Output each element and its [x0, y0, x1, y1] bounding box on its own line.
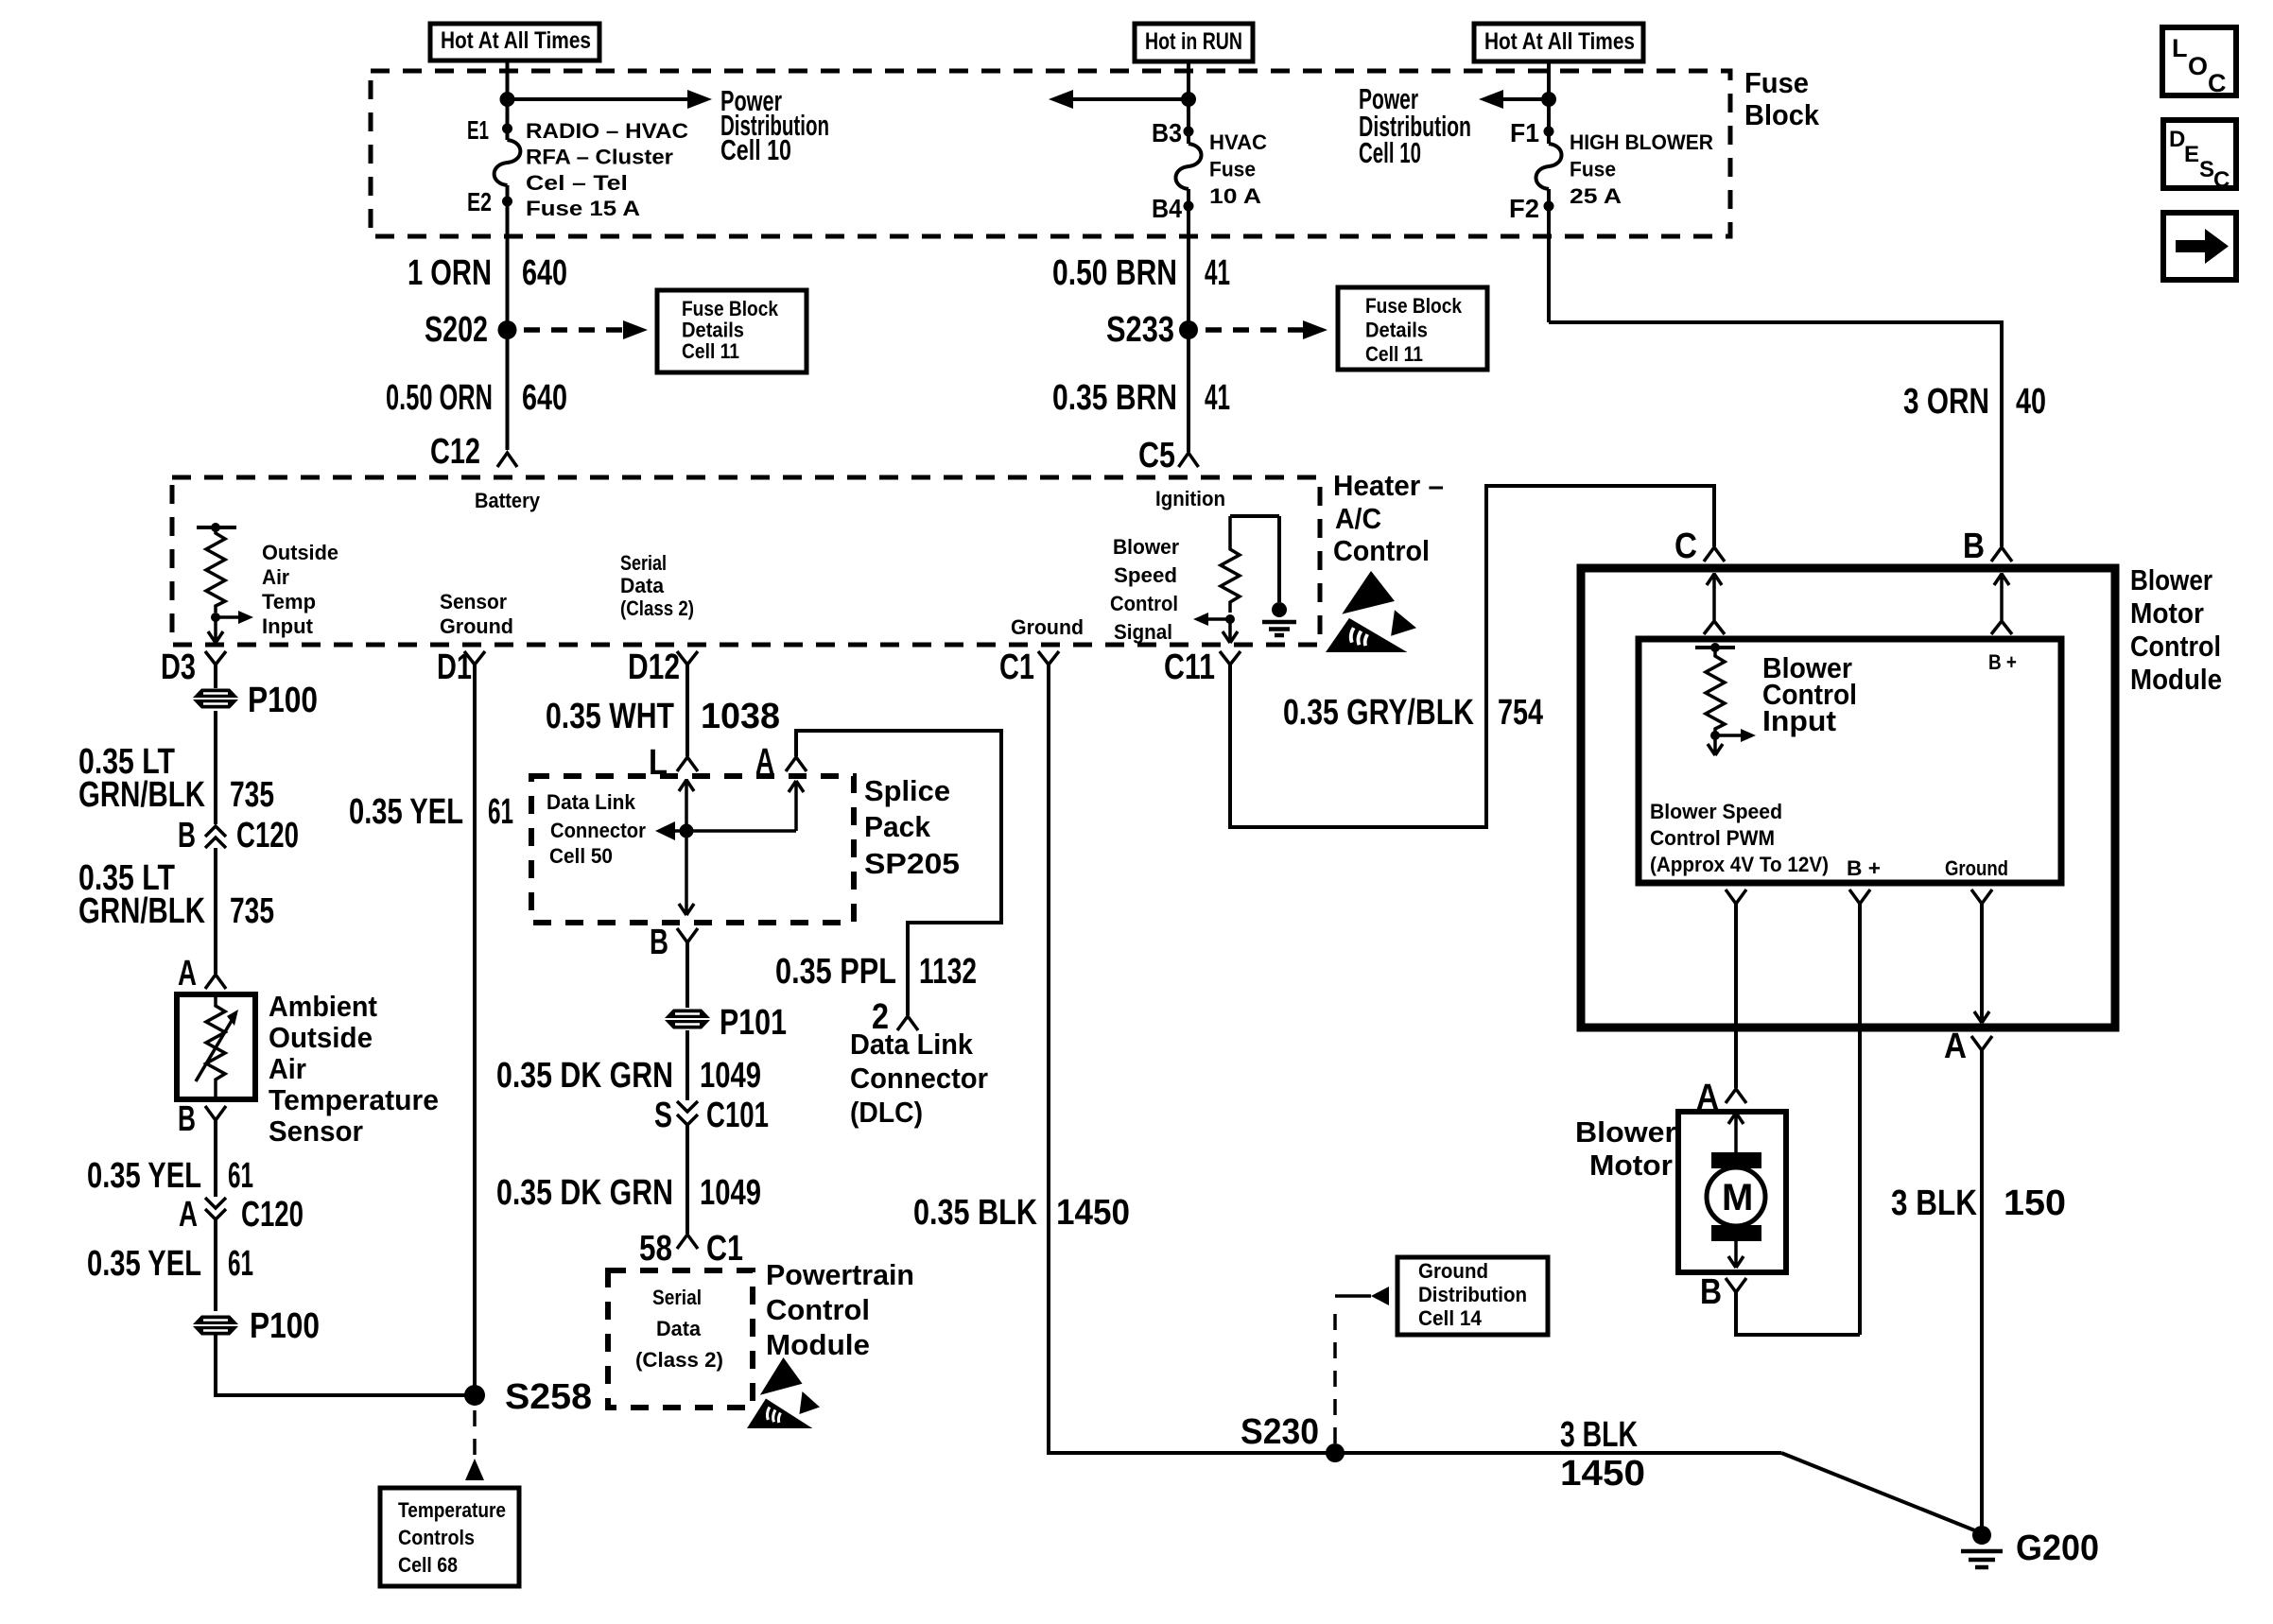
- svg-text:Ambient: Ambient: [269, 990, 377, 1023]
- svg-text:(DLC): (DLC): [850, 1096, 923, 1129]
- wire: diagonal to G200: [1781, 1453, 1982, 1533]
- label: wire 0.35 LT GRN/BLK 735 (upper): [78, 742, 274, 815]
- wire: down arrow to D3: [208, 617, 223, 643]
- svg-text:Blower: Blower: [2130, 563, 2212, 596]
- svg-text:B: B: [1963, 527, 1985, 566]
- wire: 3 BLK 150 down to G200: [1980, 1050, 1984, 1533]
- svg-text:640: 640: [522, 378, 567, 418]
- svg-text:3 BLK: 3 BLK: [1891, 1183, 1977, 1223]
- wire: P100 to S258 (bend right): [216, 1334, 475, 1395]
- label: Sensor Ground: [440, 590, 513, 638]
- legend box: DESC: [2163, 120, 2236, 193]
- wire: C1 heater ground down to S230 run: [1049, 665, 1781, 1453]
- node: pin B3 dot: [1184, 127, 1194, 137]
- svg-text:Ground: Ground: [440, 614, 513, 638]
- label: module Blower Motor: [1575, 1115, 1676, 1182]
- label box: Hot At All Times (left): [430, 24, 599, 60]
- connector C101 pin S (double chevron down): [654, 1096, 769, 1135]
- connector C120 pin A (double chevron down): [179, 1195, 304, 1235]
- grommet P100 (lower): [193, 1306, 320, 1346]
- connector A (blower motor): [1696, 1078, 1746, 1117]
- label: wire 0.35 PPL 1132: [775, 952, 977, 992]
- wire: D12 serial data down to splice pack L: [685, 665, 689, 756]
- svg-text:B: B: [178, 1099, 196, 1139]
- wire: dashed reference to Temperature Controls: [473, 1410, 477, 1463]
- label: Serial Data (Class 2): [620, 551, 694, 620]
- svg-text:Fuse Block: Fuse Block: [682, 297, 779, 320]
- node: F-column junction dot: [1541, 92, 1556, 107]
- svg-text:E1: E1: [467, 115, 489, 145]
- svg-text:D: D: [2169, 127, 2185, 152]
- label: module Powertrain Control Module: [766, 1258, 914, 1361]
- svg-text:0.50 BRN: 0.50 BRN: [1052, 253, 1177, 293]
- svg-text:Heater –: Heater –: [1333, 469, 1444, 502]
- svg-text:0.35 YEL: 0.35 YEL: [349, 792, 463, 832]
- svg-text:Battery: Battery: [475, 489, 541, 512]
- resistor: blower control input (inside inner box): [1695, 643, 1735, 735]
- svg-text:0.35 YEL: 0.35 YEL: [87, 1244, 201, 1284]
- svg-text:(Approx 4V To 12V): (Approx 4V To 12V): [1650, 853, 1829, 876]
- svg-text:Serial: Serial: [652, 1286, 702, 1309]
- wire: arrow to Power Distribution (mid col, pointing left): [1072, 97, 1189, 101]
- connector C11: [1164, 648, 1241, 687]
- node: pin E1 dot: [502, 124, 512, 134]
- svg-text:M: M: [1722, 1177, 1753, 1218]
- connector C5 (into Heater-A/C Control): [1138, 436, 1199, 475]
- wire: 3 ORN 40 from F2 to Blower Motor Control Module B: [1549, 322, 2002, 546]
- svg-text:Fuse: Fuse: [1570, 158, 1616, 181]
- node: blower control input junction dot: [1710, 731, 1720, 740]
- svg-text:Cel – Tel: Cel – Tel: [526, 171, 628, 195]
- svg-text:S202: S202: [425, 310, 488, 350]
- svg-text:Control: Control: [1333, 534, 1430, 567]
- svg-text:C1: C1: [706, 1229, 743, 1269]
- connector C1 (heater ground): [999, 648, 1059, 687]
- svg-text:Block: Block: [1744, 98, 1820, 131]
- svg-text:Splice: Splice: [864, 774, 950, 807]
- label: wire 0.35 BLK 1450: [913, 1193, 1130, 1233]
- svg-text:Temperature: Temperature: [398, 1498, 506, 1522]
- label: wire 0.35 YEL 61 (upper left): [87, 1156, 253, 1196]
- svg-text:G200: G200: [2016, 1529, 2099, 1568]
- label: module Blower Motor Control Module: [2130, 563, 2222, 696]
- ground G200: [1961, 1526, 2099, 1568]
- svg-text:Outside: Outside: [262, 541, 338, 564]
- svg-text:Details: Details: [682, 319, 744, 342]
- svg-text:Signal: Signal: [1114, 620, 1172, 644]
- svg-text:Module: Module: [766, 1328, 870, 1361]
- label: wire 0.35 YEL 61 (D1): [349, 792, 513, 832]
- svg-text:Distribution: Distribution: [1418, 1283, 1527, 1306]
- fuse RADIO-HVAC 15A (S-squiggle): [495, 140, 521, 185]
- svg-text:P101: P101: [720, 1003, 787, 1043]
- svg-text:C1: C1: [999, 648, 1034, 687]
- svg-text:Motor: Motor: [1589, 1149, 1673, 1182]
- node: B-column junction dot: [1181, 92, 1196, 107]
- wire: control input arrow right: [1715, 734, 1742, 737]
- svg-text:Fuse: Fuse: [1209, 158, 1256, 181]
- svg-text:Sensor: Sensor: [440, 590, 507, 613]
- svg-text:D12: D12: [628, 648, 680, 687]
- svg-text:S: S: [654, 1096, 672, 1135]
- reference box: Temperature Controls Cell 68: [380, 1488, 519, 1586]
- svg-text:0.50 ORN: 0.50 ORN: [386, 378, 493, 418]
- node: temp input junction dot: [211, 613, 220, 622]
- connector pin B (splice pack bottom): [650, 923, 698, 962]
- wire: F-column vertical (Hot At All Times through HIGH BLOWER fuse): [1547, 61, 1551, 144]
- node: blower speed signal junction dot: [1225, 614, 1235, 624]
- svg-text:B4: B4: [1152, 194, 1182, 223]
- svg-text:(Class 2): (Class 2): [620, 596, 694, 620]
- wire: splice B down to P101: [685, 942, 689, 1008]
- node: E-column junction dot: [500, 92, 515, 107]
- svg-text:F1: F1: [1510, 118, 1539, 147]
- svg-text:P100: P100: [248, 681, 318, 720]
- svg-text:B +: B +: [1847, 856, 1881, 880]
- node: splice junction dot: [680, 824, 694, 838]
- fuse HIGH BLOWER 25A (S-squiggle): [1536, 144, 1562, 189]
- connector B (blower motor): [1700, 1272, 1746, 1312]
- svg-text:Fuse: Fuse: [1744, 66, 1809, 99]
- label: wire 3 BLK 150: [1891, 1183, 2066, 1223]
- svg-text:Cell 10: Cell 10: [720, 133, 791, 166]
- svg-text:Powertrain: Powertrain: [766, 1258, 914, 1291]
- connector C120 pin B (double chevron up): [178, 816, 299, 855]
- variable resistor (thermistor) inside sensor: [196, 994, 238, 1099]
- wire: splice A branch up arrow: [789, 781, 804, 831]
- connector D12: [628, 648, 698, 687]
- svg-text:Control PWM: Control PWM: [1650, 826, 1775, 850]
- BMCM inner box (blower speed control PWM): [1639, 639, 2061, 883]
- motor M symbol: [1707, 1112, 1765, 1268]
- svg-text:735: 735: [230, 775, 274, 815]
- svg-text:F2: F2: [1509, 194, 1539, 223]
- svg-text:E: E: [2184, 142, 2199, 167]
- svg-text:0.35 BLK: 0.35 BLK: [913, 1193, 1037, 1233]
- Powertrain Control Module dashed box (Serial Data Class 2): [608, 1270, 753, 1408]
- fuse HVAC 10A (S-squiggle): [1176, 144, 1202, 189]
- svg-text:0.35 WHT: 0.35 WHT: [546, 697, 674, 736]
- label: module Splice Pack SP205: [864, 774, 960, 880]
- svg-text:Blower Speed: Blower Speed: [1650, 800, 1782, 823]
- wire: temp input arrow right: [216, 615, 240, 619]
- wire: splice pack A up-over-down to DLC pin 2: [796, 731, 1001, 1015]
- label: Blower Speed Control PWM (Approx 4V To 12V): [1650, 800, 1829, 876]
- wire: D3 down to P100: [214, 665, 217, 688]
- svg-text:B3: B3: [1152, 118, 1182, 147]
- svg-text:1049: 1049: [700, 1056, 761, 1096]
- wire: arrow to Power Distribution (right col, pointing left): [1502, 97, 1549, 101]
- svg-text:Module: Module: [2130, 663, 2222, 696]
- svg-text:640: 640: [522, 253, 567, 293]
- grommet P101: [665, 1003, 787, 1043]
- label: Fuse Block (module name): [1744, 66, 1820, 131]
- wire: down arrow below junction: [1708, 735, 1723, 755]
- svg-text:Cell 11: Cell 11: [682, 339, 739, 363]
- Ambient Outside Air Temperature Sensor box: [177, 994, 255, 1099]
- svg-text:25 A: 25 A: [1570, 184, 1622, 208]
- svg-text:Fuse Block: Fuse Block: [1365, 294, 1463, 318]
- wire: down arrow to C11: [1223, 619, 1238, 643]
- svg-text:A/C: A/C: [1335, 502, 1381, 535]
- label: fuse HVAC description: [1209, 130, 1267, 208]
- wire: B entry arrow + chevron inside BMCM: [1991, 573, 2012, 634]
- svg-text:61: 61: [228, 1156, 253, 1196]
- label: module Ambient Outside Air Temperature Sensor: [269, 990, 439, 1148]
- connector: inner pin 1 (to blower motor A): [1726, 890, 1746, 904]
- svg-text:1132: 1132: [919, 952, 977, 992]
- connector C (BMCM): [1674, 527, 1725, 566]
- wire: signal arrow left: [1207, 617, 1230, 621]
- svg-text:S230: S230: [1241, 1412, 1319, 1452]
- splice S202: [498, 320, 517, 339]
- label: wire 0.35 LT GRN/BLK 735 (lower): [78, 858, 274, 931]
- svg-text:C: C: [2208, 69, 2227, 97]
- wire: P100 to connector C120: [214, 711, 217, 824]
- connector pin A (splice pack): [755, 742, 807, 782]
- svg-text:Data Link: Data Link: [850, 1028, 974, 1061]
- wire: D1 sensor ground down to S258: [473, 665, 477, 1395]
- connector pin 2 (DLC): [872, 997, 918, 1037]
- svg-text:Input: Input: [262, 614, 314, 638]
- svg-text:A: A: [179, 1195, 198, 1235]
- svg-text:150: 150: [2004, 1183, 2066, 1223]
- svg-text:3 BLK: 3 BLK: [1560, 1415, 1638, 1455]
- svg-text:0.35 BRN: 0.35 BRN: [1052, 378, 1177, 418]
- label: wire 0.35 DK GRN 1049 (lower): [496, 1173, 761, 1213]
- label: Power Distribution Cell 10 (middle): [1359, 82, 1471, 169]
- connector pin L (splice pack): [649, 743, 698, 783]
- svg-text:GRN/BLK: GRN/BLK: [78, 891, 205, 931]
- svg-text:SP205: SP205: [864, 847, 960, 880]
- wire: C120 to ambient sensor A: [214, 848, 217, 974]
- label: wire 3 BLK 1450 (ground run): [1560, 1415, 1645, 1494]
- svg-text:GRN/BLK: GRN/BLK: [78, 775, 205, 815]
- svg-text:Pack: Pack: [864, 810, 931, 843]
- svg-text:B: B: [650, 923, 668, 962]
- wire: B-column vertical (Hot in RUN through HVAC fuse): [1187, 61, 1190, 144]
- label: wire 0.50 ORN 640: [386, 378, 567, 418]
- Blower Motor box: [1678, 1112, 1786, 1272]
- svg-text:HIGH BLOWER: HIGH BLOWER: [1570, 130, 1713, 154]
- label: wire 0.35 DK GRN 1049 (upper): [496, 1056, 761, 1096]
- label box: Hot At All Times (right): [1474, 24, 1643, 61]
- svg-text:Cell 11: Cell 11: [1365, 342, 1423, 366]
- svg-text:E2: E2: [467, 187, 492, 216]
- svg-text:C5: C5: [1138, 436, 1175, 475]
- svg-text:C120: C120: [236, 816, 299, 855]
- svg-text:58: 58: [639, 1229, 672, 1269]
- svg-text:Temperature: Temperature: [269, 1083, 439, 1116]
- svg-text:C11: C11: [1164, 648, 1215, 687]
- svg-text:C: C: [1674, 527, 1697, 566]
- label: Blower Control Input: [1762, 651, 1857, 737]
- connector B (BMCM): [1963, 527, 2012, 566]
- svg-text:Connector: Connector: [850, 1062, 988, 1095]
- grommet P100 (upper): [193, 681, 318, 720]
- svg-text:1450: 1450: [1056, 1193, 1130, 1233]
- wire: pin1 down to motor A: [1734, 904, 1738, 1088]
- svg-text:0.35 DK GRN: 0.35 DK GRN: [496, 1173, 673, 1213]
- label: wire 0.35 BRN 41: [1052, 378, 1230, 418]
- connector pin B (ambient sensor): [178, 1099, 226, 1139]
- svg-text:Hot At All Times: Hot At All Times: [1484, 28, 1635, 55]
- svg-text:HVAC: HVAC: [1209, 130, 1267, 154]
- splice S233: [1179, 320, 1198, 339]
- svg-text:Sensor: Sensor: [269, 1114, 363, 1148]
- svg-text:Connector: Connector: [550, 819, 646, 842]
- svg-text:61: 61: [488, 792, 513, 832]
- wire: dashed reference arrow S233 to Fuse Block Details: [1206, 327, 1306, 333]
- connector pin 58 C1 (PCM): [639, 1229, 743, 1269]
- svg-text:Motor: Motor: [2130, 596, 2204, 630]
- svg-text:P100: P100: [250, 1306, 320, 1346]
- legend box: LOC: [2162, 27, 2236, 97]
- ESD static sensitive symbol (Heater-A/C): [1326, 571, 1416, 652]
- svg-text:Input: Input: [1762, 704, 1836, 737]
- svg-text:Hot in RUN: Hot in RUN: [1145, 28, 1242, 55]
- splice S230: [1241, 1412, 1345, 1462]
- wire: C101 to PCM pin 58: [685, 1125, 689, 1234]
- svg-text:A: A: [1944, 1027, 1967, 1066]
- svg-text:Cell 14: Cell 14: [1418, 1306, 1483, 1330]
- svg-text:41: 41: [1205, 378, 1230, 418]
- legend box: forward arrow: [2163, 213, 2236, 280]
- svg-text:Outside: Outside: [269, 1021, 373, 1054]
- connector C12 (into Heater-A/C Control): [430, 432, 517, 472]
- svg-text:40: 40: [2016, 382, 2046, 422]
- node: pin B4 dot: [1184, 201, 1194, 212]
- node: pin F2 dot: [1544, 201, 1554, 212]
- wire: arrow to Power Distribution (left col): [508, 97, 689, 101]
- svg-text:3 ORN: 3 ORN: [1903, 382, 1989, 422]
- node: pin E2 dot: [502, 197, 512, 207]
- svg-text:Control: Control: [766, 1293, 870, 1326]
- ESD static sensitive symbol (PCM): [747, 1357, 820, 1428]
- label: wire 0.35 WHT 1038: [546, 697, 780, 736]
- svg-text:Controls: Controls: [398, 1526, 475, 1549]
- connector D1: [437, 648, 485, 687]
- label: Data Link Connector Cell 50: [547, 790, 646, 868]
- svg-text:10 A: 10 A: [1209, 184, 1261, 208]
- label: fuse HIGH BLOWER description: [1570, 130, 1713, 208]
- svg-text:Cell 68: Cell 68: [398, 1553, 458, 1577]
- svg-text:C120: C120: [241, 1195, 304, 1235]
- svg-text:754: 754: [1498, 693, 1543, 733]
- svg-text:Data: Data: [656, 1317, 702, 1340]
- wire: pin2 down to motor B return: [1858, 904, 1862, 1335]
- connector pin A (ambient sensor): [178, 954, 226, 993]
- svg-text:S: S: [2199, 157, 2214, 182]
- label: fuse E description: [526, 119, 688, 220]
- svg-text:Speed: Speed: [1114, 563, 1177, 587]
- fuse block dashed box: [371, 71, 1730, 236]
- node: pin F1 dot: [1544, 127, 1554, 137]
- label: Power Distribution Cell 10 (left): [720, 84, 829, 166]
- svg-text:(Class 2): (Class 2): [635, 1348, 723, 1372]
- reference box: Fuse Block Details Cell 11 (left): [657, 290, 807, 372]
- wire: C120 A down to P100 (lower): [214, 1219, 217, 1311]
- splice S258: [464, 1377, 592, 1417]
- svg-text:O: O: [2188, 52, 2208, 80]
- wire: dashed reference arrow S202 to Fuse Block Details: [524, 327, 626, 333]
- connector A (BMCM ground exit): [1944, 1027, 1992, 1066]
- wire: motor B return to module B+ pin: [1736, 1292, 1860, 1335]
- wire: sensor B down to C120 pin A: [214, 1120, 217, 1197]
- resistor: blower speed control (inside Heater box): [1221, 516, 1279, 613]
- svg-text:D3: D3: [161, 648, 196, 687]
- label: wire 3 ORN 40: [1903, 382, 2046, 422]
- svg-text:Cell 10: Cell 10: [1359, 136, 1421, 169]
- label: module Data Link Connector (DLC): [850, 1028, 988, 1129]
- wire: splice arrow left to Data Link Connector text: [674, 829, 796, 833]
- wire: 0.35 GRY/BLK 754 from C11 to BMCM C: [1230, 486, 1714, 827]
- svg-text:Fuse 15 A: Fuse 15 A: [526, 197, 640, 220]
- svg-text:Blower: Blower: [1113, 535, 1179, 559]
- wire: E-column vertical (hot feed through fuse E1/E2): [506, 60, 510, 140]
- svg-text:1 ORN: 1 ORN: [408, 253, 492, 293]
- svg-text:1038: 1038: [701, 697, 780, 736]
- connector: inner pin 2 (B+): [1849, 890, 1870, 904]
- svg-text:735: 735: [230, 891, 274, 931]
- connector: inner pin 3 (Ground): [1971, 890, 1992, 904]
- svg-text:C: C: [2213, 167, 2230, 193]
- svg-text:1049: 1049: [700, 1173, 761, 1213]
- svg-text:Air: Air: [262, 565, 289, 589]
- svg-text:B: B: [1700, 1272, 1722, 1312]
- label: wire 0.50 BRN 41: [1052, 253, 1230, 293]
- Heater-A/C Control dashed box: [172, 477, 1320, 645]
- label: wire 0.35 YEL 61 (lower left): [87, 1244, 253, 1284]
- svg-text:0.35 GRY/BLK: 0.35 GRY/BLK: [1283, 693, 1474, 733]
- svg-text:Data Link: Data Link: [547, 790, 636, 814]
- ground symbol (inside Heater box): [1262, 516, 1296, 635]
- svg-text:0.35 DK GRN: 0.35 DK GRN: [496, 1056, 673, 1096]
- svg-text:C12: C12: [430, 432, 480, 472]
- svg-text:RFA – Cluster: RFA – Cluster: [526, 146, 673, 169]
- resistor: Outside Air Temp sensor feed (inside Heater box): [197, 523, 236, 613]
- svg-text:B: B: [178, 816, 196, 855]
- svg-text:0.35 PPL: 0.35 PPL: [775, 952, 896, 992]
- Blower Motor Control Module outer box: [1581, 568, 2115, 1028]
- wire: dashed reference up from S230: [1333, 1306, 1337, 1443]
- label box: Hot in RUN: [1135, 24, 1253, 61]
- label: module Heater - A/C Control: [1333, 469, 1444, 567]
- svg-text:Cell 50: Cell 50: [549, 844, 613, 868]
- svg-text:Details: Details: [1365, 319, 1428, 342]
- svg-text:Temp: Temp: [262, 590, 316, 613]
- svg-text:S258: S258: [505, 1377, 592, 1417]
- svg-text:41: 41: [1205, 253, 1230, 293]
- svg-text:RADIO – HVAC: RADIO – HVAC: [526, 119, 688, 143]
- reference box: Fuse Block Details Cell 11 (right): [1338, 287, 1487, 370]
- svg-text:61: 61: [228, 1244, 253, 1284]
- svg-text:Ground: Ground: [1011, 615, 1084, 639]
- svg-text:Hot At All Times: Hot At All Times: [441, 27, 591, 54]
- svg-text:Ground: Ground: [1418, 1259, 1488, 1283]
- label: wire 0.35 GRY/BLK 754: [1283, 693, 1543, 733]
- Splice Pack SP205 dashed box: [531, 776, 854, 923]
- wire: pin3 down with exit arrow at box edge: [1980, 904, 1984, 1023]
- svg-text:Blower: Blower: [1575, 1115, 1676, 1149]
- connector D3: [161, 648, 226, 687]
- reference box: Ground Distribution Cell 14: [1397, 1257, 1548, 1335]
- svg-text:L: L: [2172, 34, 2188, 62]
- svg-text:0.35 YEL: 0.35 YEL: [87, 1156, 201, 1196]
- wire: P101 to C101: [685, 1030, 689, 1100]
- label: Blower Speed Control Signal: [1110, 535, 1179, 644]
- svg-text:C101: C101: [706, 1096, 769, 1135]
